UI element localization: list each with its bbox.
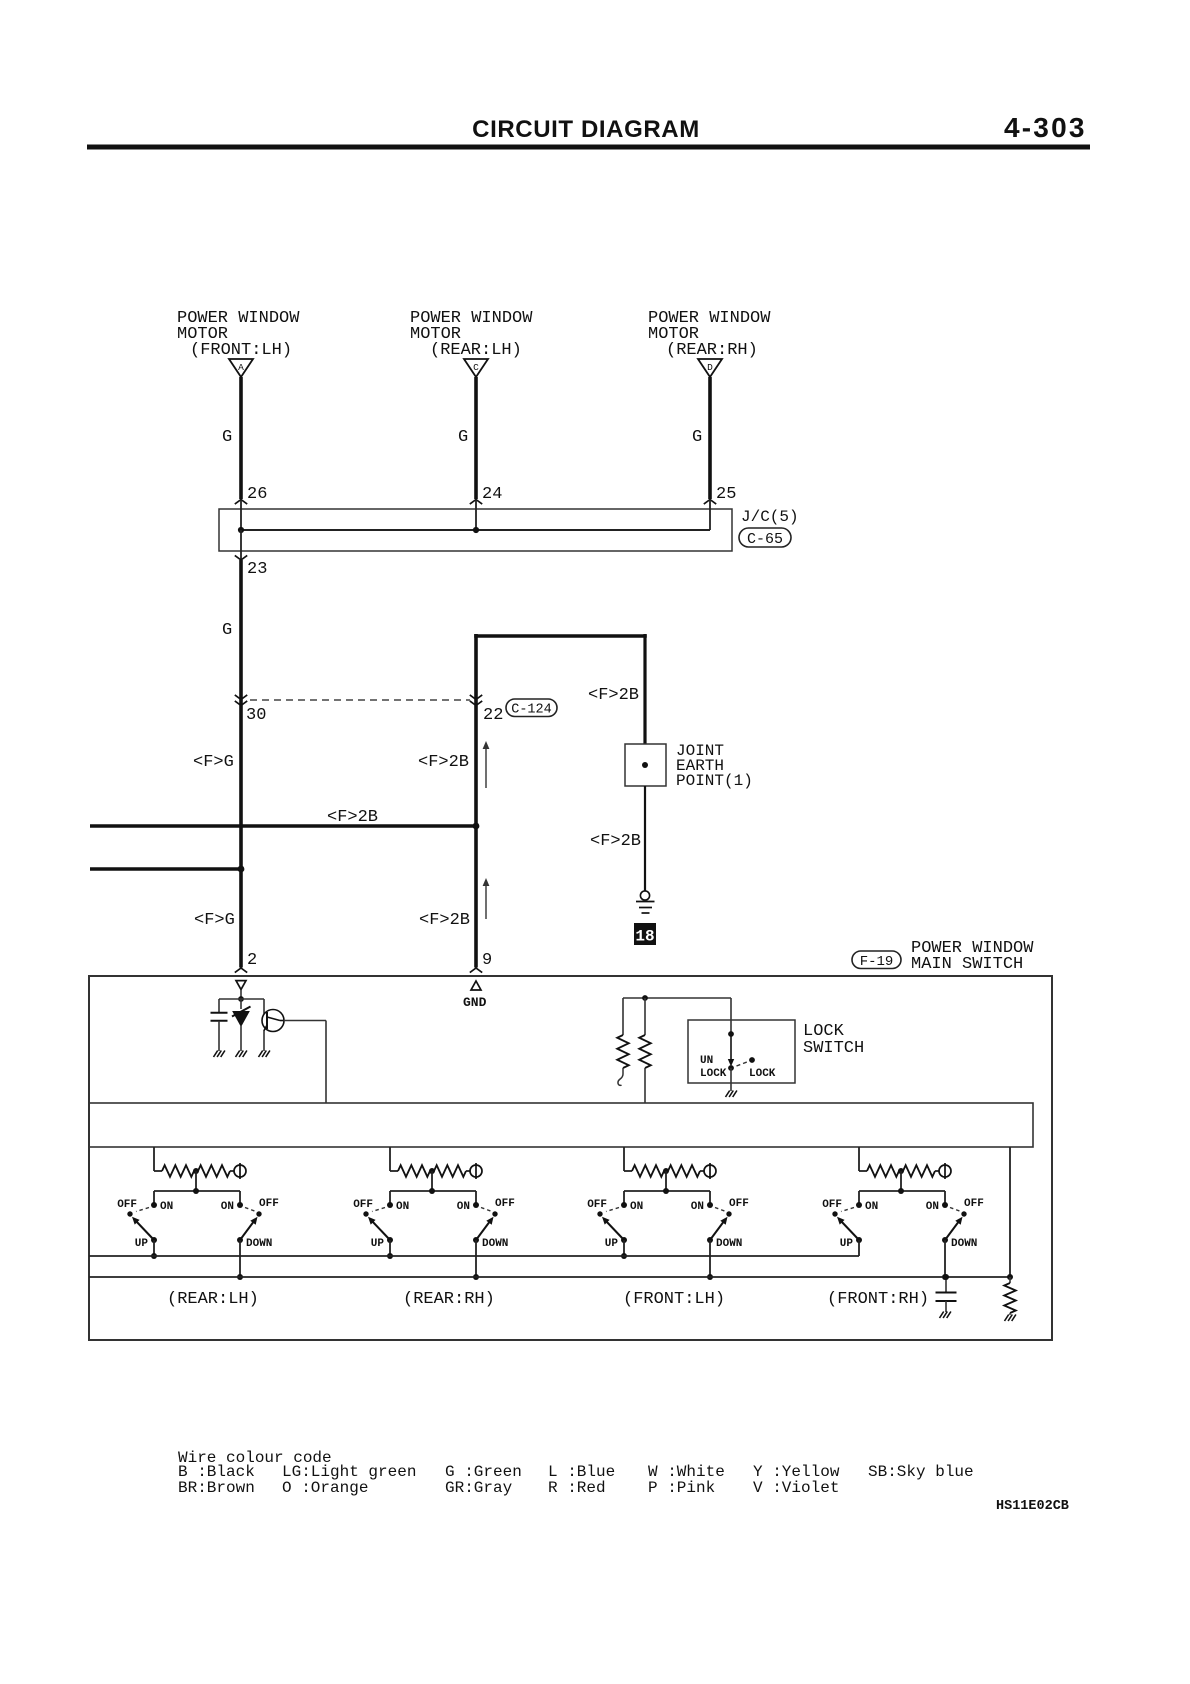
wire triangle to node — [240, 990, 242, 1000]
svg-text:DOWN: DOWN — [482, 1238, 508, 1250]
junction block J/C(5) box — [219, 509, 732, 551]
svg-text:<F>2B: <F>2B — [590, 832, 641, 851]
contact ON left (REAR:RH) — [387, 1202, 393, 1208]
svg-text:<F>2B: <F>2B — [419, 911, 470, 930]
wire joint earth to ground — [644, 786, 646, 891]
svg-text:18: 18 — [635, 928, 654, 946]
svg-text:CIRCUIT DIAGRAM: CIRCUIT DIAGRAM — [472, 116, 700, 143]
svg-text:OFF: OFF — [117, 1199, 137, 1211]
wiper wire (FRONT:RH) — [900, 1171, 902, 1191]
wire J/C pin23 stub — [240, 530, 242, 560]
ground — [940, 1312, 951, 1319]
node wiper (REAR:LH) — [193, 1188, 199, 1194]
junction node pin26/23 — [238, 527, 244, 533]
svg-text:UN: UN — [700, 1055, 713, 1067]
connector C-124 pass-through arrows on wire 22 — [470, 695, 482, 700]
svg-text:SWITCH: SWITCH — [803, 1039, 864, 1058]
transistor emitter to ground — [263, 1031, 265, 1052]
throw dashed left (FRONT:RH) — [841, 1208, 854, 1212]
junction node pin24 — [473, 527, 479, 533]
svg-text:C-65: C-65 — [747, 531, 783, 548]
svg-text:(FRONT:LH): (FRONT:LH) — [623, 1290, 725, 1309]
wire UP to line1 (FRONT:LH) — [623, 1240, 625, 1256]
pin 24 arrow — [470, 500, 482, 505]
lock rail node — [642, 995, 648, 1001]
ground — [726, 1091, 737, 1098]
node UP (FRONT:RH) — [856, 1237, 862, 1243]
svg-text:(REAR:RH): (REAR:RH) — [403, 1290, 495, 1309]
contact ON right (REAR:RH) — [473, 1202, 479, 1208]
wire pin25 inside J/C — [709, 500, 711, 530]
zener diode lead — [240, 999, 242, 1009]
svg-text:OFF: OFF — [964, 1198, 984, 1210]
svg-text:4-303: 4-303 — [1004, 112, 1087, 143]
capacitor lead — [218, 999, 220, 1012]
illumination lamp (REAR:LH) — [234, 1165, 246, 1177]
connector A (power window motor FRONT:LH) — [229, 359, 253, 377]
svg-text:POINT(1): POINT(1) — [676, 772, 753, 790]
zener diode Z — [233, 1012, 249, 1027]
transistor Q — [262, 1010, 284, 1032]
svg-text:G: G — [458, 428, 468, 447]
connector C-124 pass-through arrows on wire 30 — [235, 695, 247, 700]
resistor (REAR:LH) right — [198, 1165, 230, 1177]
resistor node (REAR:LH) — [193, 1168, 199, 1174]
joint earth node — [642, 762, 648, 768]
svg-text:G: G — [222, 621, 232, 640]
ground — [236, 1051, 247, 1058]
throw dashed right (REAR:RH) — [481, 1208, 492, 1212]
switch arm UP (FRONT:LH) — [606, 1221, 625, 1241]
transistor base lead — [263, 999, 265, 1014]
svg-text:C: C — [473, 362, 479, 373]
resistor (FRONT:RH) left — [867, 1165, 899, 1177]
svg-text:OFF: OFF — [353, 1199, 373, 1211]
capacitor lead to ground — [218, 1021, 220, 1051]
svg-text:ON: ON — [221, 1201, 234, 1213]
UP common line1 — [89, 1255, 859, 1257]
wire motor D to J/C pin 25 (G) — [708, 377, 712, 499]
resistor node (FRONT:LH) — [663, 1168, 669, 1174]
switch group (FRONT:LH) feed from bus — [623, 1147, 625, 1171]
resistor (FRONT:RH) right — [903, 1165, 935, 1177]
node UP (FRONT:LH) — [621, 1237, 627, 1243]
svg-text:(REAR:RH): (REAR:RH) — [666, 341, 758, 360]
resistor (FRONT:LH) right — [668, 1165, 700, 1177]
contact OFF left (REAR:RH) — [363, 1211, 368, 1216]
svg-text:ON: ON — [630, 1201, 643, 1213]
svg-text:D: D — [707, 362, 713, 373]
illumination lamp (FRONT:RH) — [939, 1165, 951, 1177]
svg-text:<F>2B: <F>2B — [418, 753, 469, 772]
direction arrow up lower — [485, 881, 487, 919]
node UP-line1 (REAR:RH) — [387, 1253, 393, 1259]
node DOWN (FRONT:LH) — [707, 1237, 713, 1243]
svg-text:ON: ON — [691, 1201, 704, 1213]
svg-text:DOWN: DOWN — [716, 1238, 742, 1250]
svg-text:F-19: F-19 — [860, 954, 894, 970]
resistor (REAR:LH) left — [162, 1165, 194, 1177]
junction node wire1-2B — [473, 823, 480, 830]
connector label C-65 — [739, 528, 791, 547]
lock throw dashed — [737, 1062, 748, 1066]
svg-text:26: 26 — [247, 485, 267, 504]
wire pin24 inside J/C — [475, 500, 477, 530]
contact header wire (FRONT:LH) — [624, 1190, 710, 1192]
svg-text:2: 2 — [247, 951, 257, 970]
svg-text:OFF: OFF — [822, 1199, 842, 1211]
wire DOWN to line2 (REAR:LH) — [239, 1240, 241, 1277]
svg-text:ON: ON — [865, 1201, 878, 1213]
wiper wire (REAR:LH) — [195, 1171, 197, 1191]
contact OFF right (REAR:RH) — [492, 1211, 497, 1216]
illumination lamp (REAR:RH) — [470, 1165, 482, 1177]
wire motor C to J/C pin 24 (G) — [474, 377, 478, 499]
svg-text:P :Pink: P :Pink — [648, 1479, 715, 1497]
switch arm DOWN (FRONT:LH) — [710, 1221, 725, 1241]
svg-text:MAIN SWITCH: MAIN SWITCH — [911, 955, 1023, 974]
svg-text:ON: ON — [926, 1201, 939, 1213]
svg-text:(FRONT:RH): (FRONT:RH) — [827, 1290, 929, 1309]
svg-text:<F>G: <F>G — [194, 911, 235, 930]
contact ON right (REAR:LH) — [237, 1202, 243, 1208]
direction arrow up — [485, 744, 487, 788]
svg-text:O :Orange: O :Orange — [282, 1479, 368, 1497]
svg-text:22: 22 — [483, 706, 503, 725]
connector D (power window motor REAR:RH) — [698, 359, 722, 377]
throw dashed right (FRONT:RH) — [950, 1208, 961, 1212]
ground — [214, 1051, 225, 1058]
throw dashed left (REAR:RH) — [372, 1208, 385, 1212]
contact ON left (REAR:LH) — [151, 1202, 157, 1208]
lock switch common wire — [730, 998, 732, 1034]
wire 2B to joint earth point — [643, 634, 646, 744]
lock switch box — [688, 1020, 795, 1083]
wire DOWN to line2 (REAR:RH) — [475, 1240, 477, 1277]
node UP-line1 (REAR:LH) — [151, 1253, 157, 1259]
illumination lamp (FRONT:LH) — [704, 1165, 716, 1177]
resistor node (REAR:RH) — [429, 1168, 435, 1174]
contact header wire (FRONT:RH) — [859, 1190, 945, 1192]
node right wire line2 — [1007, 1274, 1013, 1280]
switch arm DOWN (FRONT:RH) — [945, 1221, 960, 1241]
svg-text:24: 24 — [482, 485, 502, 504]
resistor (REAR:RH) right — [434, 1165, 466, 1177]
resistor (REAR:RH) left — [398, 1165, 430, 1177]
svg-text:ON: ON — [160, 1201, 173, 1213]
capacitor on line2 — [945, 1277, 947, 1292]
svg-text:<F>2B: <F>2B — [327, 808, 378, 827]
earth ground symbol — [640, 891, 649, 900]
svg-text:V :Violet: V :Violet — [753, 1479, 839, 1497]
switch arm DOWN (REAR:RH) — [476, 1221, 491, 1241]
pin 9 arrow — [470, 968, 482, 973]
dashed connector alignment line C-124 — [250, 699, 470, 701]
svg-text:UP: UP — [605, 1238, 619, 1250]
pin 9 internal GND triangle — [471, 981, 481, 990]
svg-text:25: 25 — [716, 485, 736, 504]
joint earth point box — [625, 744, 666, 786]
contact OFF right (FRONT:LH) — [726, 1211, 731, 1216]
node UP (REAR:LH) — [151, 1237, 157, 1243]
wire 2B from left margin — [90, 824, 476, 828]
wire motor A to J/C pin 26 (G) — [239, 377, 243, 499]
pin 2 internal connector triangle — [236, 981, 246, 990]
node DOWN-line2 (REAR:LH) — [237, 1274, 243, 1280]
switch arm UP (REAR:LH) — [136, 1221, 155, 1241]
node wiper (REAR:RH) — [429, 1188, 435, 1194]
junction node feed-G — [238, 866, 245, 873]
svg-text:A: A — [238, 362, 244, 373]
node DOWN (FRONT:RH) — [942, 1237, 948, 1243]
svg-text:J/C(5): J/C(5) — [741, 508, 799, 526]
throw dashed left (FRONT:LH) — [606, 1208, 619, 1212]
contact header wire (REAR:RH) — [390, 1190, 476, 1192]
switch group (REAR:RH) feed from bus — [389, 1147, 391, 1171]
contact header wire (REAR:LH) — [154, 1190, 240, 1192]
header rule — [87, 145, 1090, 150]
node DOWN-line2 (REAR:RH) — [473, 1274, 479, 1280]
switch group (FRONT:RH) feed from bus — [858, 1147, 860, 1171]
svg-text:23: 23 — [247, 560, 267, 579]
svg-text:OFF: OFF — [495, 1198, 515, 1210]
svg-text:(FRONT:LH): (FRONT:LH) — [190, 341, 292, 360]
connector C (power window motor REAR:LH) — [464, 359, 488, 377]
pin 23 arrow — [235, 555, 247, 560]
svg-text:LOCK: LOCK — [749, 1068, 776, 1080]
contact OFF left (REAR:LH) — [127, 1211, 132, 1216]
node wiper (FRONT:LH) — [663, 1188, 669, 1194]
wiper wire (REAR:RH) — [431, 1171, 433, 1191]
svg-text:GND: GND — [463, 995, 487, 1010]
contact OFF right (REAR:LH) — [256, 1211, 261, 1216]
node capacitor-line2 — [943, 1274, 949, 1280]
power window main switch box — [89, 976, 1052, 1340]
svg-text:C-124: C-124 — [511, 703, 552, 718]
svg-text:DOWN: DOWN — [246, 1238, 272, 1250]
bus to line2 right wire — [1009, 1147, 1011, 1277]
wire UP to line1 (REAR:RH) — [389, 1240, 391, 1256]
wire UP to line1 (REAR:LH) — [153, 1240, 155, 1256]
svg-text:30: 30 — [246, 706, 266, 725]
svg-text:BR:Brown: BR:Brown — [178, 1479, 255, 1497]
contact ON right (FRONT:RH) — [942, 1202, 948, 1208]
svg-text:GR:Gray: GR:Gray — [445, 1479, 513, 1497]
resistor (FRONT:LH) left — [632, 1165, 664, 1177]
node DOWN-line2 (FRONT:LH) — [707, 1274, 713, 1280]
lock switch wire to ground — [730, 1068, 732, 1091]
connector label F-19 — [852, 951, 901, 969]
svg-text:(REAR:LH): (REAR:LH) — [430, 341, 522, 360]
svg-text:OFF: OFF — [587, 1199, 607, 1211]
svg-text:ON: ON — [457, 1201, 470, 1213]
svg-text:ON: ON — [396, 1201, 409, 1213]
wire UP to line1 (FRONT:RH) — [858, 1240, 860, 1256]
svg-text:R :Red: R :Red — [548, 1479, 606, 1497]
wire DOWN to line2 (FRONT:RH) — [944, 1240, 946, 1277]
pin 25 arrow — [704, 500, 716, 505]
ground — [1005, 1315, 1016, 1322]
wire G from left margin — [90, 867, 241, 871]
wire pin26 inside J/C — [240, 500, 242, 530]
svg-text:SB:Sky blue: SB:Sky blue — [868, 1463, 974, 1481]
pin 26 arrow — [235, 500, 247, 505]
resistor R2 to bus — [644, 998, 646, 1035]
svg-text:<F>2B: <F>2B — [588, 686, 639, 705]
throw dashed right (REAR:LH) — [245, 1208, 256, 1212]
wire pin23 down to main switch pin 2 (G) — [239, 560, 243, 968]
throw dashed right (FRONT:LH) — [715, 1208, 726, 1212]
svg-text:OFF: OFF — [259, 1198, 279, 1210]
svg-text:DOWN: DOWN — [951, 1238, 977, 1250]
node DOWN (REAR:RH) — [473, 1237, 479, 1243]
ground — [259, 1051, 270, 1058]
resistor R1 (open end) — [622, 998, 624, 1035]
node UP (REAR:RH) — [387, 1237, 393, 1243]
pin 2 arrow — [235, 968, 247, 973]
resistor node (FRONT:RH) — [898, 1168, 904, 1174]
switch arm UP (FRONT:RH) — [841, 1221, 860, 1241]
contact OFF right (FRONT:RH) — [961, 1211, 966, 1216]
svg-text:UP: UP — [840, 1238, 854, 1250]
svg-text:G: G — [692, 428, 702, 447]
lock circuit rail — [623, 997, 731, 999]
svg-text:<F>G: <F>G — [193, 753, 234, 772]
svg-text:LOCK: LOCK — [700, 1068, 727, 1080]
earth point number 18 badge — [634, 923, 656, 945]
node DOWN (REAR:LH) — [237, 1237, 243, 1243]
wire DOWN to line2 (FRONT:LH) — [709, 1240, 711, 1277]
zener lead to ground — [240, 1026, 242, 1051]
contact ON left (FRONT:LH) — [621, 1202, 627, 1208]
switch arm UP (REAR:RH) — [372, 1221, 391, 1241]
wiper wire (FRONT:LH) — [665, 1171, 667, 1191]
capacitor C — [211, 1012, 228, 1014]
internal node pin2 — [238, 996, 244, 1002]
J/C internal bus wire — [241, 529, 710, 531]
contact OFF left (FRONT:RH) — [832, 1211, 837, 1216]
node DOWN-line2 (FRONT:RH) — [942, 1274, 948, 1280]
node UP-line1 (FRONT:LH) — [621, 1253, 627, 1259]
svg-text:9: 9 — [482, 951, 492, 970]
connector label C-124 — [506, 699, 557, 717]
wire corner top 2B horizontal — [474, 634, 647, 638]
svg-text:(REAR:LH): (REAR:LH) — [167, 1290, 259, 1309]
throw dashed left (REAR:LH) — [136, 1208, 149, 1212]
wire 2B vertical pin22 to pin 9 — [474, 634, 478, 968]
lock switch arm — [730, 1034, 732, 1060]
DOWN common line2 — [89, 1276, 1010, 1278]
lock switch common node — [728, 1031, 734, 1037]
svg-text:UP: UP — [135, 1238, 149, 1250]
contact ON right (FRONT:LH) — [707, 1202, 713, 1208]
svg-text:HS11E02CB: HS11E02CB — [996, 1499, 1069, 1514]
svg-text:OFF: OFF — [729, 1198, 749, 1210]
lock contact node — [749, 1057, 755, 1063]
internal rail — [219, 998, 264, 1000]
switch group (REAR:LH) feed from bus — [153, 1147, 155, 1171]
transistor collector wire — [284, 1020, 327, 1022]
svg-text:UP: UP — [371, 1238, 385, 1250]
switch arm DOWN (REAR:LH) — [240, 1221, 255, 1241]
contact OFF left (FRONT:LH) — [597, 1211, 602, 1216]
unlock contact node — [728, 1065, 734, 1071]
svg-text:G: G — [222, 428, 232, 447]
node wiper (FRONT:RH) — [898, 1188, 904, 1194]
contact ON left (FRONT:RH) — [856, 1202, 862, 1208]
pull-down resistor right — [1009, 1277, 1011, 1283]
internal bus bar — [89, 1103, 1033, 1147]
